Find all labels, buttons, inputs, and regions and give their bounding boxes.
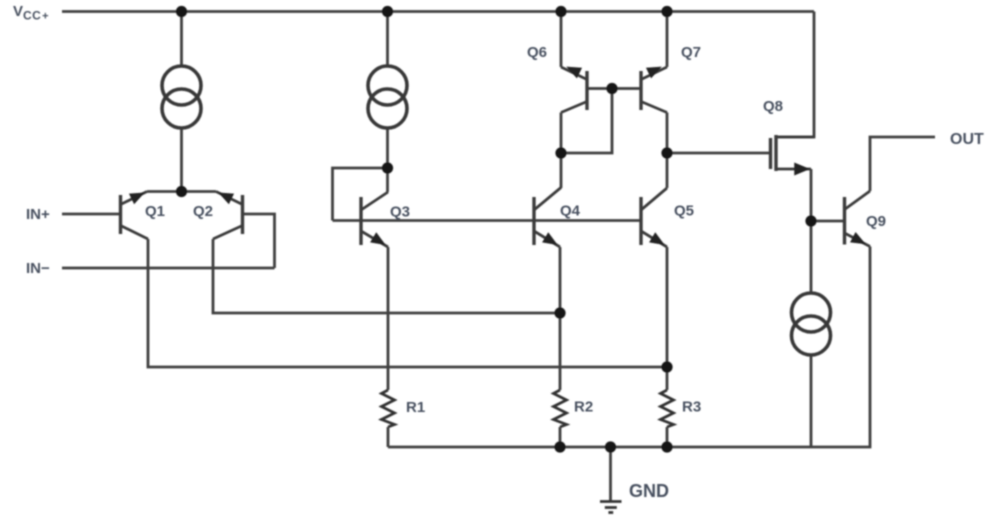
MOSFET Q8 — [771, 135, 815, 174]
transistor Q4 — [534, 188, 561, 248]
wire Q2 base loop — [243, 214, 275, 268]
svg-text:IN+: IN+ — [26, 206, 50, 223]
svg-text:Q3: Q3 — [390, 204, 410, 221]
node: Q1/Q2 emitter junction — [176, 186, 187, 197]
wire Q6 emitter vertical to rail — [560, 12, 563, 68]
wire Q9 base lead — [811, 220, 844, 223]
node: Q8 drain / Q9 base junction — [805, 215, 816, 226]
resistor R2 — [554, 390, 567, 427]
wire Q1 collector run to R3 node — [148, 239, 667, 367]
wire bottom rail to Q9 emitter — [388, 247, 870, 448]
wire CS1 bottom lead to Q1/Q2 emitter node — [180, 128, 183, 192]
wire Q7 collector node to Q8 gate — [667, 152, 770, 155]
transistor Q6 — [561, 67, 641, 113]
current source I1 — [162, 66, 201, 128]
svg-text:Q9: Q9 — [866, 213, 886, 230]
wire IN+ lead to Q1 base — [62, 213, 121, 216]
svg-text:IN−: IN− — [26, 260, 50, 277]
wire Q9 collector to OUT — [870, 137, 935, 191]
transistor Q9 — [845, 191, 871, 247]
transistor Q5 — [641, 188, 667, 247]
wire R3 top lead — [666, 367, 669, 390]
node: R2 bottom rail junction — [554, 441, 565, 452]
wire Q1/Q2 common emitter rail — [147, 190, 216, 193]
wire R2 bottom lead — [559, 427, 562, 447]
svg-text:R2: R2 — [574, 399, 593, 416]
node: VCC-CS2 junction — [382, 6, 393, 17]
svg-text:Q8: Q8 — [763, 98, 783, 115]
wire CS1 top lead — [180, 12, 183, 67]
svg-text:GND: GND — [629, 481, 669, 501]
wire Q4 emitter to R2 — [559, 247, 562, 390]
wire R1 bottom lead — [387, 427, 390, 447]
wire Q7 collector vertical — [666, 113, 669, 189]
node: Q3 collector junction — [382, 162, 393, 173]
node: R3 bottom rail junction — [661, 441, 672, 452]
node: Q1 collector / Q5 emitter / R3 junction — [661, 361, 672, 372]
transistor Q1 — [121, 192, 149, 240]
wire GND stem — [609, 447, 612, 502]
node: VCC-Q7 junction — [661, 6, 672, 17]
wire Q3 collector-base feedback — [333, 168, 388, 221]
wire R3 bottom lead — [666, 427, 669, 447]
node: VCC-Q6 junction — [555, 6, 566, 17]
svg-text:R1: R1 — [406, 399, 425, 416]
resistor R3 — [661, 390, 674, 427]
wire CS3 top lead — [810, 221, 813, 293]
wire Q8 drain vertical — [810, 169, 813, 221]
svg-text:Q7: Q7 — [681, 44, 701, 61]
node: VCC-CS1 junction — [176, 6, 187, 17]
svg-text:Q4: Q4 — [560, 203, 581, 220]
node: Q6 collector junction — [555, 147, 566, 158]
wire Q7 emitter vertical to rail — [666, 12, 669, 68]
power rail VCC+ wire — [62, 10, 814, 13]
wire base bus Q3-Q4-Q5 — [333, 219, 642, 222]
resistor R1 — [382, 390, 395, 427]
wire mirror base-collector link — [561, 89, 612, 154]
svg-text:Q1: Q1 — [145, 203, 165, 220]
wire Q3 emitter to R1 — [387, 247, 390, 390]
svg-text:Q5: Q5 — [674, 203, 694, 220]
wire Q2 collector run to Q4 emitter node — [213, 239, 560, 313]
svg-text:Q6: Q6 — [527, 44, 547, 61]
wire CS3 bottom lead — [810, 355, 813, 447]
transistor Q3 — [361, 192, 388, 247]
node: Q2 collector / Q4 emitter junction — [554, 307, 565, 318]
transistor Q2 — [213, 192, 243, 240]
ground symbol — [600, 502, 622, 513]
wire Q5 emitter to R3 node — [666, 247, 669, 367]
wire Q6 collector vertical — [560, 113, 563, 189]
svg-text:R3: R3 — [682, 399, 701, 416]
svg-text:Q2: Q2 — [193, 203, 213, 220]
node: GND rail junction — [605, 441, 616, 452]
svg-text:OUT: OUT — [950, 131, 984, 148]
wire CS2 bottom lead to Q3 collector node — [386, 128, 389, 168]
wire VCC rail corner down to Q8 source — [776, 12, 814, 138]
node: Q7 collector / Q8 gate junction — [661, 147, 672, 158]
svg-text:VCC+: VCC+ — [13, 3, 49, 23]
current source I3 — [792, 293, 831, 355]
current source I2 — [368, 66, 407, 128]
wire CS2 top lead — [386, 12, 389, 67]
wire Q3 collector vertical — [386, 168, 389, 192]
wire IN- lead — [62, 267, 275, 270]
node: Q6/Q7 base junction — [606, 83, 617, 94]
transistor Q7 — [641, 67, 667, 113]
